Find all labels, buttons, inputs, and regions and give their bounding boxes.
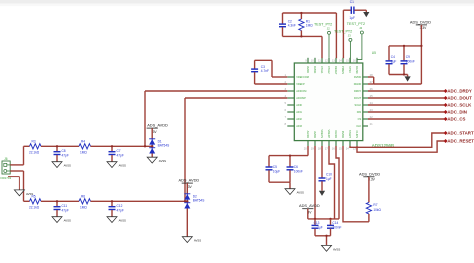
svg-text:ADS_AVDD: ADS_AVDD bbox=[299, 203, 320, 208]
svg-text:ADC_SCLK: ADC_SCLK bbox=[447, 103, 472, 108]
svg-text:1MΩ: 1MΩ bbox=[80, 205, 87, 209]
svg-text:C1: C1 bbox=[350, 0, 354, 4]
svg-text:ADCINP: ADCINP bbox=[296, 96, 306, 100]
svg-text:ADC_RESET: ADC_RESET bbox=[447, 139, 474, 144]
svg-text:CLK: CLK bbox=[356, 124, 361, 128]
svg-text:17: 17 bbox=[325, 146, 329, 150]
svg-text:BAT54S: BAT54S bbox=[158, 144, 170, 148]
svg-text:14: 14 bbox=[346, 146, 350, 150]
svg-text:12: 12 bbox=[325, 59, 329, 63]
svg-text:10kΩ: 10kΩ bbox=[373, 208, 381, 212]
svg-text:DOUT: DOUT bbox=[354, 96, 362, 100]
svg-text:SCLK: SCLK bbox=[355, 103, 362, 107]
svg-text:AVSS: AVSS bbox=[333, 247, 340, 251]
svg-text:DVDD: DVDD bbox=[313, 66, 317, 73]
svg-text:4.7nF: 4.7nF bbox=[261, 69, 269, 73]
svg-text:21: 21 bbox=[370, 122, 374, 126]
svg-text:DIN: DIN bbox=[357, 110, 362, 114]
svg-text:16: 16 bbox=[332, 146, 336, 150]
svg-text:1MΩ: 1MΩ bbox=[80, 150, 87, 154]
svg-text:20: 20 bbox=[304, 146, 308, 150]
svg-text:AIN2: AIN2 bbox=[296, 117, 302, 121]
svg-text:47pF: 47pF bbox=[117, 153, 124, 157]
svg-text:AVSS: AVSS bbox=[26, 192, 33, 196]
svg-text:AIN0: AIN0 bbox=[296, 103, 302, 107]
svg-text:DRDY: DRDY bbox=[354, 89, 362, 93]
svg-text:CS: CS bbox=[358, 117, 362, 121]
svg-text:13: 13 bbox=[332, 59, 336, 63]
svg-text:J3: J3 bbox=[348, 34, 351, 38]
svg-text:AVSS: AVSS bbox=[119, 164, 126, 168]
svg-text:ADC_DIN: ADC_DIN bbox=[447, 110, 467, 115]
svg-text:AIN1: AIN1 bbox=[296, 110, 302, 114]
svg-text:R3: R3 bbox=[32, 139, 36, 143]
svg-text:R4: R4 bbox=[81, 139, 85, 143]
svg-text:PDWN: PDWN bbox=[341, 66, 345, 74]
svg-text:19: 19 bbox=[311, 146, 315, 150]
svg-text:ADS_DVDD: ADS_DVDD bbox=[359, 171, 380, 176]
svg-text:18: 18 bbox=[318, 146, 322, 150]
svg-text:C4: C4 bbox=[391, 55, 395, 59]
svg-text:J4: J4 bbox=[359, 26, 362, 30]
svg-text:U5: U5 bbox=[372, 51, 376, 55]
svg-text:TEST_PT2: TEST_PT2 bbox=[347, 22, 365, 26]
svg-text:1µF: 1µF bbox=[391, 60, 397, 64]
svg-text:SYNC: SYNC bbox=[348, 66, 352, 73]
svg-text:AVSS: AVSS bbox=[64, 164, 71, 168]
svg-text:AVSS: AVSS bbox=[119, 219, 126, 223]
svg-text:C10: C10 bbox=[326, 173, 332, 177]
svg-text:VREFN: VREFN bbox=[320, 129, 324, 138]
svg-text:15: 15 bbox=[339, 146, 343, 150]
svg-text:ADC_START: ADC_START bbox=[447, 131, 474, 136]
svg-text:AVSS: AVSS bbox=[159, 159, 166, 163]
svg-text:VREFCOM: VREFCOM bbox=[296, 75, 309, 79]
svg-text:R7: R7 bbox=[373, 203, 377, 207]
svg-text:100nF: 100nF bbox=[332, 226, 341, 230]
svg-text:47pF: 47pF bbox=[62, 153, 69, 157]
svg-text:START: START bbox=[348, 130, 352, 139]
svg-text:C9: C9 bbox=[406, 55, 410, 59]
svg-text:47pF: 47pF bbox=[62, 208, 69, 212]
svg-text:1µF: 1µF bbox=[326, 177, 332, 181]
svg-text:15: 15 bbox=[346, 59, 350, 63]
svg-text:XTAL2: XTAL2 bbox=[327, 66, 331, 74]
svg-text:1MΩ: 1MΩ bbox=[306, 24, 313, 28]
svg-text:AVSS: AVSS bbox=[64, 219, 71, 223]
svg-text:ADS_DVDD: ADS_DVDD bbox=[410, 19, 431, 24]
svg-text:RESET: RESET bbox=[334, 66, 338, 75]
svg-text:C14: C14 bbox=[332, 221, 338, 225]
svg-text:VREFP: VREFP bbox=[296, 82, 305, 86]
svg-text:C8: C8 bbox=[62, 149, 66, 153]
svg-text:AVSS: AVSS bbox=[194, 239, 201, 243]
svg-text:C5: C5 bbox=[273, 165, 277, 169]
svg-text:ADS_AVDD: ADS_AVDD bbox=[147, 123, 168, 128]
svg-text:C13: C13 bbox=[314, 221, 320, 225]
svg-text:DGND: DGND bbox=[334, 131, 338, 139]
svg-text:C7: C7 bbox=[117, 149, 121, 153]
svg-text:C2: C2 bbox=[288, 19, 292, 23]
svg-text:100nF: 100nF bbox=[406, 60, 415, 64]
svg-text:22.1kΩ: 22.1kΩ bbox=[29, 205, 40, 209]
svg-text:AVDD: AVDD bbox=[313, 131, 317, 138]
svg-text:C3: C3 bbox=[261, 65, 265, 69]
svg-text:DGND: DGND bbox=[354, 82, 362, 86]
svg-text:14: 14 bbox=[339, 59, 343, 63]
svg-text:AGND: AGND bbox=[306, 131, 310, 139]
svg-text:R1: R1 bbox=[306, 19, 310, 23]
svg-text:R6: R6 bbox=[81, 194, 85, 198]
svg-text:ADC_DOUT: ADC_DOUT bbox=[447, 96, 472, 101]
svg-text:CLKIN: CLKIN bbox=[355, 130, 359, 138]
svg-text:D1: D1 bbox=[158, 139, 162, 143]
svg-text:4.3nF: 4.3nF bbox=[288, 24, 296, 28]
svg-text:ADC_CS: ADC_CS bbox=[447, 117, 465, 122]
svg-text:11: 11 bbox=[318, 59, 321, 63]
svg-text:ADS_AVDD: ADS_AVDD bbox=[179, 178, 200, 183]
svg-text:BAT54S: BAT54S bbox=[193, 199, 205, 203]
svg-text:1µF: 1µF bbox=[349, 16, 355, 20]
svg-text:100nF: 100nF bbox=[294, 170, 303, 174]
svg-text:ADC_DRDY: ADC_DRDY bbox=[447, 89, 471, 94]
svg-text:DGND: DGND bbox=[355, 66, 359, 74]
svg-text:AVDD: AVDD bbox=[306, 66, 310, 73]
svg-text:AIN3: AIN3 bbox=[296, 124, 302, 128]
svg-text:10µF: 10µF bbox=[273, 170, 280, 174]
svg-text:J2: J2 bbox=[327, 27, 330, 31]
svg-text:VREFP: VREFP bbox=[327, 130, 331, 139]
svg-text:22.1kΩ: 22.1kΩ bbox=[29, 150, 40, 154]
svg-text:C11: C11 bbox=[62, 204, 68, 208]
svg-text:C12: C12 bbox=[117, 204, 123, 208]
svg-text:DVDD: DVDD bbox=[341, 131, 345, 138]
svg-text:J6: J6 bbox=[4, 157, 8, 161]
svg-text:10: 10 bbox=[311, 59, 315, 63]
svg-text:AINCOM: AINCOM bbox=[296, 89, 306, 93]
svg-text:C6: C6 bbox=[294, 165, 298, 169]
svg-text:XTAL1: XTAL1 bbox=[320, 66, 324, 74]
svg-text:1µF: 1µF bbox=[317, 226, 323, 230]
svg-text:47pF: 47pF bbox=[117, 208, 124, 212]
svg-text:D2: D2 bbox=[193, 194, 197, 198]
svg-text:16: 16 bbox=[353, 59, 357, 63]
svg-text:DVDD: DVDD bbox=[354, 75, 361, 79]
svg-text:AVSS: AVSS bbox=[297, 191, 304, 195]
